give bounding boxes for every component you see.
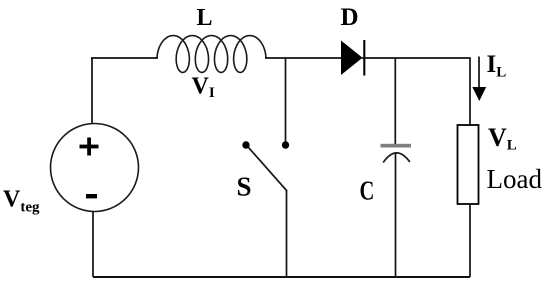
svg-text:IL: IL <box>487 51 507 81</box>
svg-text:L: L <box>197 5 213 31</box>
svg-text:VI: VI <box>192 74 215 102</box>
bottom rail <box>93 276 470 278</box>
current IL arrowhead <box>472 87 486 101</box>
wire top-left horizontal <box>91 57 158 59</box>
wire junction to capacitor <box>394 58 396 144</box>
switch S left contact dot <box>242 141 249 148</box>
current IL arrow line <box>478 57 480 90</box>
wire coil to diode <box>265 57 341 59</box>
switch S blade <box>249 148 288 192</box>
minus sign <box>86 194 97 198</box>
svg-text:S: S <box>237 172 252 202</box>
wire diode to right corner <box>362 58 470 125</box>
wire junction to switch <box>285 58 287 142</box>
svg-text:C: C <box>360 177 375 206</box>
wire switch to bottom rail <box>286 190 288 277</box>
svg-text:Load: Load <box>487 164 543 194</box>
diode D1 cathode bar <box>363 40 365 76</box>
wire source bottom <box>92 212 94 278</box>
svg-text:D: D <box>341 4 359 31</box>
capacitor C top plate (gray) <box>381 144 412 148</box>
wire capacitor to bottom rail <box>395 154 397 278</box>
load resistor rectangle <box>458 125 479 204</box>
diode D1 triangle <box>341 41 363 76</box>
voltage source V_teg circle <box>51 124 139 212</box>
plus sign <box>80 145 99 149</box>
inductor L1 coil <box>157 36 266 73</box>
svg-text:Vteg: Vteg <box>3 187 40 216</box>
capacitor C curved plate <box>383 153 410 163</box>
wire load to bottom rail <box>469 204 471 277</box>
wire source top <box>91 58 93 124</box>
switch S right contact dot <box>282 141 289 148</box>
svg-text:VL: VL <box>488 123 517 154</box>
